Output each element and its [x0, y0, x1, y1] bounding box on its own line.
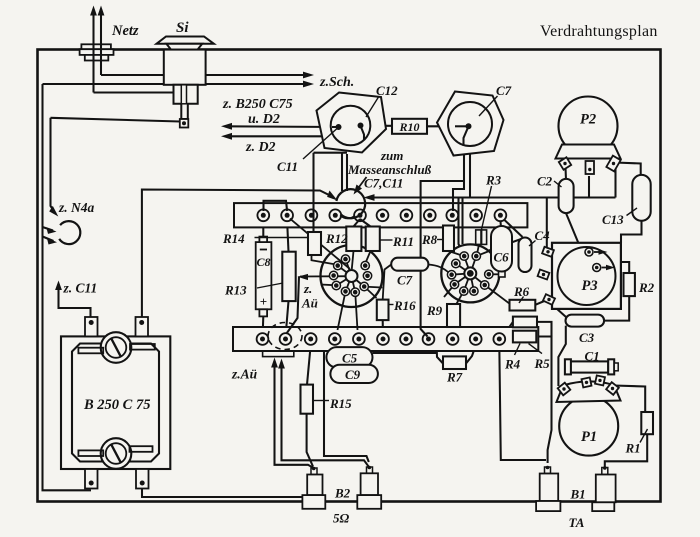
wire left-side long run A	[43, 84, 92, 490]
capacitor C2	[559, 179, 574, 213]
wire P3 right to R2	[621, 262, 629, 273]
wire C12 pin down through eyelet3 to R14	[312, 153, 314, 232]
arrowhead into ground lug from left	[327, 191, 337, 201]
leader C7 cap	[479, 96, 498, 116]
wire fuse tip to left side	[51, 118, 181, 122]
wire eyelet5 to R11 top	[360, 219, 371, 227]
arrowhead z.B250 left	[221, 123, 232, 130]
resistor R4	[513, 317, 537, 328]
svg-text:C12: C12	[376, 83, 398, 98]
wire R1 bottom to B1 right jack	[605, 434, 647, 467]
wire R4 R5 right ends to B1 jack	[537, 322, 552, 337]
dashed ring on lower strip	[268, 323, 302, 350]
resistor R10	[392, 119, 427, 134]
svg-text:P3: P3	[582, 278, 598, 294]
wire jog from C7 cap down through strip to lower eyelet 8	[421, 181, 464, 337]
svg-text:R8: R8	[421, 232, 438, 247]
wire C8 bottom to lower strip	[262, 316, 265, 333]
socket V2 spokes	[464, 256, 470, 273]
svg-text:R11: R11	[392, 234, 414, 249]
wire C7 cap pin down to bus	[469, 145, 471, 198]
svg-text:C13: C13	[602, 212, 624, 227]
arrowhead z.Sch. upper	[303, 72, 314, 79]
svg-text:zum: zum	[380, 148, 403, 163]
wire B250 bottom-right terminal to B2 jack	[142, 489, 305, 498]
svg-text:+: +	[260, 294, 267, 309]
wire C5 right end to R7	[373, 352, 438, 354]
mains connector block Netz	[80, 44, 114, 60]
wire eyelet5 to R12 top	[354, 219, 361, 227]
socket V1 spokes	[346, 259, 352, 276]
svg-text:B2: B2	[334, 486, 351, 501]
capacitor C5	[326, 347, 372, 367]
svg-text:z. C11: z. C11	[63, 281, 98, 296]
wire strip to right B2 jack	[324, 351, 369, 462]
arrowhead z.Sch. lower	[303, 81, 314, 88]
wire Netz lead 1 to fuse body	[94, 91, 175, 93]
tube socket V1	[321, 245, 383, 307]
leader R14	[255, 237, 309, 239]
leader C2	[554, 181, 562, 187]
wire P3 lower tab to C3 left	[547, 300, 567, 318]
wire Netz lead 1 (left, to fuse)	[92, 13, 94, 93]
svg-text:P2: P2	[580, 112, 596, 128]
svg-text:R13: R13	[224, 283, 247, 298]
resistor R5	[513, 331, 536, 343]
wire z.C11 pointer from B250 terminal	[59, 284, 91, 318]
resistor R7	[443, 356, 466, 369]
svg-text:Netz: Netz	[111, 23, 139, 39]
resistor R3 (pair)	[476, 230, 481, 245]
lug P1 top-left	[582, 377, 592, 387]
wire socket spoke left down to lower strip eyelet2	[287, 276, 300, 333]
lug P1 left foot	[558, 383, 571, 396]
wire arc eyelet4 to eyelet5	[340, 216, 355, 219]
wire P2 left lug to C2	[564, 168, 567, 181]
fuse holder Si	[157, 37, 214, 128]
capacitor C4	[519, 238, 532, 273]
arrowhead z.Aue up 2	[278, 359, 285, 369]
lug P2 right	[606, 156, 620, 172]
wire to z.Sch. lower	[43, 83, 307, 85]
wire eyelet1 to C8 top	[262, 221, 264, 238]
tube socket V2	[441, 244, 499, 302]
svg-text:C4: C4	[535, 228, 551, 243]
svg-text:R15: R15	[329, 396, 352, 411]
terminal B250 bottom-left	[85, 469, 98, 489]
wire bus branch up to P2 centre lug	[588, 176, 590, 198]
wire R5 left to lower strip eyelet	[505, 337, 513, 340]
lug P1 top-right	[595, 375, 605, 385]
svg-text:R9: R9	[426, 303, 443, 318]
wire z.B250 C75 u.D2 to C12 left pin	[225, 125, 339, 128]
arrow zum Masseanschluss	[356, 177, 367, 191]
wire C12 bottom to ground lug pair	[341, 152, 343, 191]
wire C7 pill right to V2 pin4	[428, 265, 449, 274]
socket V1 pins	[329, 255, 371, 296]
rectifier B250 C75	[61, 336, 170, 469]
terminal B250 top-left	[85, 317, 98, 336]
terminal strip lower	[233, 327, 538, 351]
arrowhead ground bus into lug	[364, 194, 375, 201]
leader R16	[389, 304, 394, 306]
leader R13	[257, 283, 283, 288]
wire V1 pin5 to lower strip	[338, 291, 346, 330]
B250 screw bottom	[101, 438, 132, 469]
resistor R1	[641, 412, 653, 434]
svg-text:R3: R3	[485, 173, 502, 188]
svg-text:z.Sch.: z.Sch.	[319, 75, 354, 90]
wire R8 top to eyelet	[450, 221, 452, 226]
svg-text:R2: R2	[638, 280, 655, 295]
resistor R6	[510, 300, 536, 311]
leader R4	[515, 344, 521, 356]
wire C3 left down to P1 left lug	[558, 326, 565, 386]
svg-text:C2: C2	[537, 174, 553, 189]
leader R5	[529, 344, 543, 354]
wire R2 bottom to C3	[603, 296, 629, 321]
resistor R14	[308, 232, 321, 255]
svg-text:C11: C11	[277, 159, 298, 174]
svg-text:z.Aü: z.Aü	[231, 367, 258, 382]
wire Netz lead 2 (right)	[100, 13, 102, 75]
socket V1 chord right	[364, 286, 382, 289]
tab P3 upper-left	[542, 247, 554, 257]
output transformer P3	[538, 243, 621, 309]
svg-text:R6: R6	[513, 284, 530, 299]
svg-text:R10: R10	[398, 120, 419, 134]
arrowhead z.Aue spoke	[298, 274, 309, 280]
leader R1	[640, 429, 648, 443]
capacitor C9	[330, 365, 378, 383]
wire bus branch down to P3 upper tab	[546, 198, 548, 250]
arrowhead z.Aue up 1	[271, 358, 278, 368]
wire R16 bottom to lower strip	[382, 320, 384, 333]
leader R11	[381, 239, 393, 241]
chassis border frame	[38, 50, 661, 502]
wire V1 pin7 to R16	[364, 287, 376, 299]
svg-text:C7,C11: C7,C11	[364, 176, 403, 191]
socket V2 centre hub	[464, 267, 476, 279]
svg-text:C1: C1	[585, 349, 600, 364]
svg-text:5Ω: 5Ω	[333, 511, 350, 526]
wire P2 right lug to C13	[615, 163, 641, 177]
wire C4 top diagonal to socket (upper part)	[489, 239, 523, 251]
ground lug (Masseanschluss)	[336, 189, 365, 218]
wire jumper bridge eyelet1 to eyelet2	[264, 201, 288, 211]
svg-text:B1: B1	[570, 487, 586, 502]
svg-text:R7: R7	[446, 370, 463, 385]
speaker pot P2	[556, 97, 621, 175]
resistor R15	[301, 385, 314, 414]
svg-text:R12: R12	[325, 231, 348, 246]
leader R8	[437, 239, 444, 241]
svg-text:Verdrahtungsplan: Verdrahtungsplan	[540, 23, 658, 40]
leader R3	[482, 186, 492, 230]
leader C4	[529, 241, 536, 247]
eyelets lower strip	[257, 333, 506, 345]
wire bus pair down to tube socket 2	[459, 198, 464, 255]
svg-text:Si: Si	[176, 20, 189, 36]
svg-text:C5: C5	[342, 351, 358, 366]
socket V1 chord left	[321, 284, 337, 287]
wire C7 cap pin down to eyelet 9	[453, 143, 464, 211]
wire branch arrow to z.N4a middle	[43, 227, 54, 231]
resistor R9	[447, 304, 460, 327]
lug P2 left	[559, 157, 571, 169]
wire R11 bottom to pin	[366, 251, 371, 263]
wire B250 right terminal up and to ground lug	[142, 190, 334, 318]
jack B2 left	[302, 468, 325, 509]
wire z.Aue spoke extended left	[300, 275, 352, 277]
electrolytic C12	[317, 93, 387, 153]
wire z.Aue arrow line 2 to B2 jack	[282, 364, 369, 467]
wire V2 pin8 to R6	[485, 285, 510, 304]
svg-text:P1: P1	[581, 429, 597, 445]
wire C4 diagonal into V2 pin2	[476, 252, 488, 257]
svg-text:R5: R5	[534, 356, 551, 371]
jack B1 left	[536, 467, 560, 511]
wire C12 pin horizontal toward eyelet3	[314, 152, 348, 154]
wire C7 pill left to R16 top	[383, 265, 392, 300]
wire z.D2 to C12 right pin	[225, 135, 364, 137]
arrowhead Netz up 2	[98, 6, 105, 16]
lug P2 centre	[586, 161, 595, 174]
svg-text:C9: C9	[345, 367, 361, 382]
solder dots on jack nubs	[312, 466, 607, 471]
arrowhead into z.N4a middle	[46, 227, 56, 234]
electrolytic C7	[437, 92, 504, 156]
tab P3 mid-left	[538, 270, 550, 280]
terminal B250 top-right	[136, 317, 149, 336]
svg-text:B 250 C 75: B 250 C 75	[83, 397, 150, 413]
B250 clamp bars	[78, 344, 154, 456]
svg-text:z. N4a: z. N4a	[58, 200, 95, 215]
wire V2 pin6 to R9	[456, 291, 464, 305]
svg-text:R4: R4	[504, 357, 521, 372]
resistor R2	[624, 273, 635, 296]
resistor R8	[443, 226, 454, 252]
svg-text:C8: C8	[256, 255, 270, 269]
wire R6 right to P3 tab	[535, 301, 545, 305]
wire V2 pin5 stub	[444, 284, 455, 297]
wire lower strip eyelet 11 down to B1 jack	[499, 345, 546, 460]
box below lower strip	[263, 351, 294, 357]
arrowhead into z.N4a bottom	[47, 238, 57, 245]
socket V2 pins	[447, 252, 493, 295]
leader R15	[314, 400, 329, 402]
wire V1 pin6 to lower strip	[355, 292, 357, 330]
solder lug z.N4a	[59, 221, 80, 244]
wire z.Aue arrow line 1 to B2 jack	[275, 363, 314, 469]
jack B2 right	[357, 467, 381, 509]
capacitor C3	[566, 315, 605, 327]
wire eyelet11 diagonal to C4 top	[504, 220, 523, 238]
wire C2 bottom to P3	[566, 213, 579, 243]
leader R6	[519, 297, 524, 304]
wire eyelet2 diagonal to socket hub	[290, 219, 350, 269]
wire R12 bottom into socket	[352, 251, 354, 269]
pot P1	[557, 375, 621, 455]
wire left-side run B to z.N4a	[51, 118, 56, 214]
wire P1 right lug to R1	[614, 386, 645, 413]
socket V1 centre hole	[346, 270, 358, 282]
svg-text:z. B250 C75: z. B250 C75	[222, 97, 293, 112]
svg-text:C7: C7	[496, 83, 512, 98]
wire R7 left to strip	[437, 351, 443, 364]
arrowhead z.C11 up	[55, 281, 62, 291]
wire R4 left to lower strip eyelet	[504, 322, 513, 336]
leader lines	[255, 96, 648, 443]
arrowhead Netz up 1	[90, 6, 97, 16]
wire C12 stub to z.D2 line	[361, 126, 365, 137]
wire R8 bottom to V2 pin1	[449, 251, 463, 256]
svg-text:TA: TA	[569, 515, 585, 530]
capacitor C7 (tubular)	[391, 258, 428, 271]
resistor R16	[377, 300, 389, 321]
wire eyelet11 to C6 top	[499, 221, 502, 228]
wire V2 pin9 to C6 bottom	[489, 273, 502, 275]
arrowhead into z.N4a top	[49, 206, 58, 217]
terminal strip upper	[234, 203, 527, 227]
wire R14 bottom into socket	[312, 254, 337, 265]
svg-text:R16: R16	[393, 298, 416, 313]
wire R10 to C7 pin	[427, 125, 469, 127]
B250 screw top	[101, 332, 132, 363]
tab P3 lower-left	[543, 294, 555, 305]
capacitor C1 (tubular with end caps)	[565, 359, 618, 374]
wire R3 bottom to V2 pin	[477, 244, 479, 254]
wire R15 bottom to B2 jack	[307, 414, 313, 467]
jack B1 right (TA)	[592, 468, 615, 512]
leader C12	[366, 97, 379, 117]
svg-text:Aü: Aü	[301, 296, 318, 311]
leader C13	[627, 208, 638, 216]
leader C11	[303, 129, 337, 159]
svg-text:C7: C7	[397, 273, 413, 288]
resistor R11	[366, 227, 380, 252]
arrowhead z.D2 left	[221, 133, 232, 140]
capacitor C8	[256, 237, 272, 317]
eyelets upper strip	[257, 209, 506, 221]
resistor R12	[346, 227, 361, 252]
wire R13 bottom to lower strip	[286, 301, 289, 333]
wire eyelet2 to R13 top	[287, 221, 288, 252]
svg-text:z.: z.	[303, 281, 312, 296]
svg-text:C3: C3	[579, 330, 595, 345]
lug P1 right foot	[606, 382, 619, 395]
resistor R13	[282, 252, 295, 301]
capacitor C6	[499, 270, 506, 277]
wire C13 bottom to P3 corner	[621, 220, 642, 243]
wire eyelet3 to R15	[307, 345, 311, 385]
wire ground bus to P2	[367, 196, 616, 198]
capacitor C13	[632, 175, 650, 221]
wire R7 right to strip eyelet	[466, 345, 476, 364]
wire to z.Sch. upper	[101, 74, 306, 76]
svg-text:u. D2: u. D2	[248, 112, 280, 127]
svg-text:z. D2: z. D2	[245, 140, 276, 155]
wire C12 right pin to R10	[361, 125, 393, 127]
svg-text:R1: R1	[625, 441, 641, 456]
svg-text:R14: R14	[222, 231, 245, 246]
wire branch arrow to z.N4a lower	[43, 237, 54, 242]
terminal B250 bottom-right	[136, 469, 149, 489]
wire bus branch up to P2 right lug	[614, 165, 616, 198]
svg-text:C6: C6	[494, 250, 510, 265]
